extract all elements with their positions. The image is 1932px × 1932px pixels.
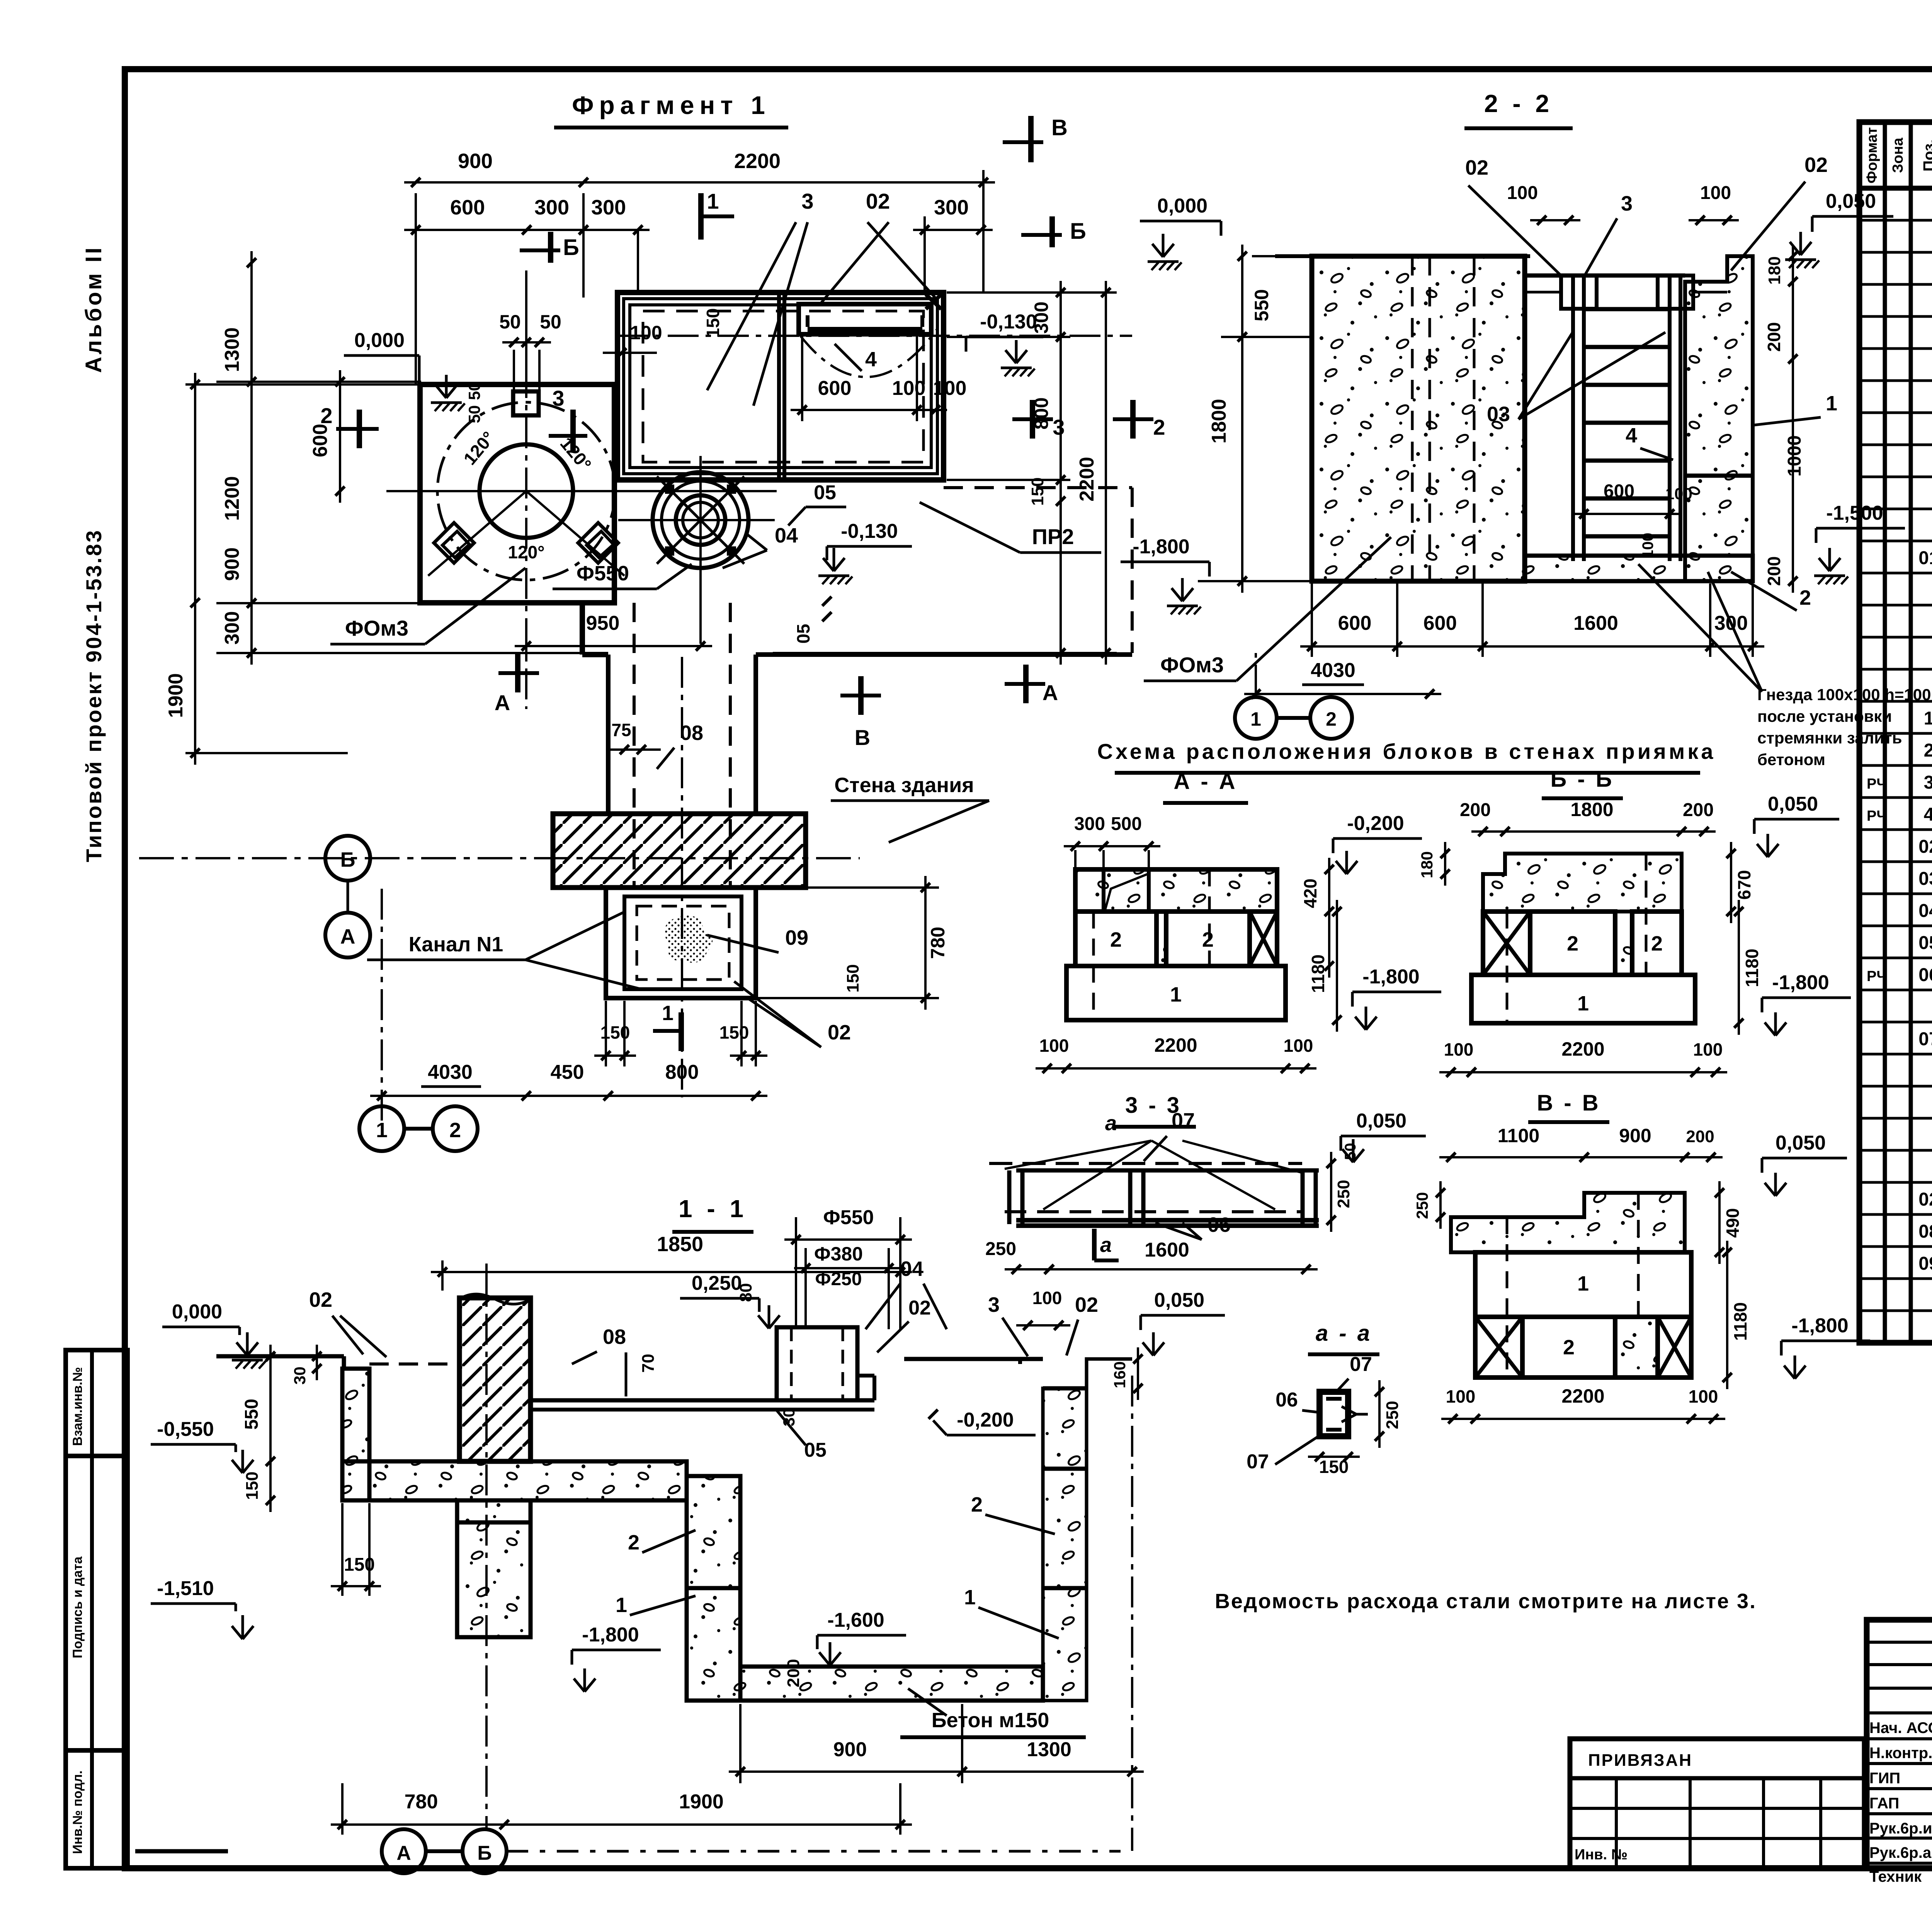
svg-text:ГИП: ГИП: [1869, 1770, 1900, 1787]
1-1: ground line left: [216, 1354, 344, 1359]
plan: bolt circle: [480, 444, 573, 538]
3-3: callout diagonals: [1043, 1141, 1151, 1209]
svg-text:2: 2: [320, 403, 332, 428]
svg-text:100: 100: [1665, 485, 1692, 503]
а-а: channel frame detail: [1320, 1392, 1348, 1436]
svg-text:50: 50: [465, 405, 483, 423]
svg-text:-1,510: -1,510: [157, 1577, 214, 1600]
svg-text:Инв. №: Инв. №: [1575, 1847, 1628, 1863]
svg-text:200: 200: [1686, 1127, 1714, 1146]
svg-text:Рук.6р.инж: Рук.6р.инж: [1869, 1820, 1932, 1837]
plan: pit divider: [777, 294, 781, 479]
svg-text:А - А: А - А: [1173, 769, 1237, 794]
plan: dimension chain 600/300/300: [404, 229, 650, 231]
svg-text:0,050: 0,050: [1768, 793, 1818, 815]
svg-text:30: 30: [291, 1367, 309, 1385]
plan: axis bubble А (left): [325, 913, 370, 957]
left small table ПРИВЯЗАН: [1570, 1739, 1864, 1868]
svg-text:05: 05: [814, 481, 836, 504]
svg-text:200: 200: [1764, 556, 1784, 586]
svg-text:ПРИВЯЗАН: ПРИВЯЗАН: [1588, 1751, 1692, 1770]
svg-text:Стена здания: Стена здания: [834, 774, 974, 797]
svg-text:3: 3: [1053, 415, 1065, 439]
svg-text:09: 09: [1918, 1253, 1932, 1274]
svg-text:2 - 2: 2 - 2: [1484, 90, 1553, 117]
svg-text:Б: Б: [477, 1842, 492, 1864]
svg-text:4: 4: [1924, 804, 1932, 825]
svg-text:-1,800: -1,800: [1772, 971, 1829, 994]
1-1: right wall: [1043, 1359, 1132, 1701]
svg-text:1600: 1600: [1573, 612, 1618, 634]
plan: cut marker В (bottom): [840, 694, 881, 697]
svg-text:600: 600: [450, 196, 485, 219]
svg-text:100: 100: [1032, 1288, 1062, 1308]
2-2: ladder anchors: [1561, 276, 1597, 309]
plan: pit corner weld mark: [926, 294, 941, 309]
plan: anchor bolt squares: [434, 523, 474, 563]
А-А: base block 1: [1066, 966, 1286, 1020]
svg-text:150: 150: [703, 308, 723, 338]
svg-text:Инв.№ подл.: Инв.№ подл.: [70, 1770, 85, 1854]
svg-text:А: А: [396, 1842, 411, 1864]
svg-text:06: 06: [1207, 1213, 1231, 1236]
svg-text:а: а: [1100, 1233, 1112, 1257]
2-2: big concrete block ФОм3: [1312, 256, 1525, 581]
svg-text:2: 2: [1651, 932, 1663, 955]
3-3: thin slab plate: [989, 1162, 1302, 1165]
plan: cut marker 2 (left): [336, 427, 379, 431]
svg-text:06: 06: [1918, 965, 1932, 985]
svg-text:2: 2: [449, 1119, 461, 1142]
svg-text:04: 04: [775, 524, 798, 547]
svg-text:50: 50: [499, 311, 521, 333]
2-2: bottom dims 600/600/1600/300: [1300, 645, 1764, 648]
svg-text:2200: 2200: [1076, 457, 1098, 502]
svg-text:Б: Б: [1070, 219, 1086, 244]
svg-text:0,050: 0,050: [1154, 1289, 1204, 1311]
svg-text:ФОм3: ФОм3: [345, 616, 408, 640]
svg-text:02: 02: [828, 1021, 851, 1044]
plan: pit horizontal axis: [617, 335, 1132, 337]
svg-text:1300: 1300: [221, 327, 243, 372]
svg-text:4: 4: [1626, 424, 1637, 447]
svg-text:1: 1: [616, 1594, 627, 1617]
svg-text:Рук.6р.арх: Рук.6р.арх: [1869, 1844, 1932, 1861]
svg-text:02: 02: [1465, 156, 1488, 179]
svg-text:3: 3: [552, 386, 564, 410]
plan: building wall (hatched): [553, 814, 806, 888]
svg-text:-1,600: -1,600: [827, 1609, 884, 1631]
svg-text:250: 250: [1413, 1192, 1431, 1219]
svg-text:В: В: [1051, 115, 1068, 140]
svg-text:1: 1: [1250, 708, 1261, 730]
svg-text:1900: 1900: [679, 1791, 724, 1813]
svg-text:бетоном: бетоном: [1757, 750, 1825, 769]
svg-text:ПР2: ПР2: [1032, 524, 1074, 549]
svg-text:150: 150: [1028, 477, 1047, 505]
svg-text:-1,500: -1,500: [1826, 502, 1883, 524]
svg-text:100: 100: [1639, 533, 1656, 559]
title block outer: [1867, 1620, 1932, 1868]
svg-text:А: А: [495, 690, 510, 715]
В-В: block 1: [1475, 1252, 1691, 1317]
svg-text:3: 3: [801, 189, 813, 213]
plan: right dimension chains: [1060, 281, 1062, 665]
svg-text:450: 450: [551, 1061, 584, 1083]
svg-text:-0,200: -0,200: [1347, 812, 1404, 835]
plan: panel swing arc: [801, 329, 937, 377]
svg-text:а - а: а - а: [1316, 1321, 1372, 1346]
svg-text:300: 300: [534, 196, 569, 219]
plan: bottom dimension 4030/450/800: [370, 1095, 767, 1097]
svg-text:600: 600: [309, 424, 332, 457]
plan: dims 600/100/100 in pit: [791, 409, 947, 411]
svg-text:670: 670: [1734, 870, 1754, 900]
svg-text:0,000: 0,000: [172, 1301, 222, 1323]
svg-text:Ф380: Ф380: [814, 1243, 863, 1265]
svg-text:Формат: Формат: [1864, 127, 1880, 184]
svg-text:Типовой проект 904-1-53.83: Типовой проект 904-1-53.83: [82, 529, 106, 862]
svg-text:Канал N1: Канал N1: [409, 933, 503, 956]
svg-text:03: 03: [1487, 403, 1510, 426]
svg-text:300: 300: [934, 196, 969, 219]
svg-text:1300: 1300: [1027, 1738, 1071, 1761]
svg-text:1100: 1100: [1498, 1125, 1539, 1146]
svg-text:Б: Б: [563, 235, 579, 260]
svg-text:Взам.инв.№: Взам.инв.№: [70, 1367, 85, 1446]
svg-text:РЧ: РЧ: [1867, 968, 1887, 985]
svg-text:900: 900: [221, 548, 243, 581]
svg-text:Б - Б: Б - Б: [1551, 767, 1614, 792]
svg-text:Б: Б: [340, 848, 355, 871]
svg-text:70: 70: [639, 1354, 658, 1373]
plan: cut marker 1 (bottom): [679, 1012, 684, 1051]
1-1: pit floor: [740, 1667, 1043, 1701]
В-В: stepped top slab: [1451, 1193, 1685, 1252]
plan: top dimension chain 900/2200: [404, 181, 995, 184]
svg-text:1800: 1800: [1570, 799, 1613, 820]
svg-text:05: 05: [793, 624, 813, 643]
plan: pit ПР2 outer walls: [617, 293, 944, 480]
svg-text:1900: 1900: [165, 673, 187, 718]
svg-text:2: 2: [1563, 1336, 1575, 1359]
svg-text:-0,130: -0,130: [841, 520, 898, 543]
svg-text:150: 150: [1319, 1457, 1349, 1477]
svg-text:1: 1: [1577, 1272, 1589, 1295]
svg-text:02: 02: [908, 1297, 931, 1319]
svg-text:2: 2: [1326, 708, 1337, 730]
svg-text:Н.контр.: Н.контр.: [1869, 1745, 1932, 1762]
1-1: center axis: [485, 1264, 488, 1828]
svg-text:1180: 1180: [1742, 949, 1762, 987]
svg-text:120°: 120°: [508, 542, 544, 562]
svg-text:1: 1: [376, 1119, 388, 1142]
plan: outline below square / channel: [420, 600, 582, 605]
svg-text:09: 09: [785, 926, 808, 949]
plan: channel pit below wall: [606, 888, 756, 998]
plan: marker В (top right): [1028, 116, 1034, 162]
svg-text:07: 07: [1247, 1451, 1269, 1473]
svg-text:780: 780: [405, 1791, 438, 1813]
2-2: floor strip: [1525, 556, 1753, 581]
svg-text:780: 780: [927, 927, 949, 959]
svg-text:160: 160: [1111, 1361, 1129, 1388]
plan: axis circle (dash-dot): [437, 402, 615, 580]
svg-text:Техник: Техник: [1869, 1868, 1922, 1885]
spec table grid: [1859, 122, 1932, 1343]
2-2: top surface lines: [1275, 254, 1312, 258]
svg-text:0,050: 0,050: [1776, 1132, 1826, 1154]
2-2: right wall blocks: [1685, 256, 1753, 581]
svg-text:1000: 1000: [1784, 435, 1805, 477]
svg-text:08: 08: [1918, 1221, 1932, 1242]
svg-text:600: 600: [1423, 612, 1457, 634]
svg-text:05: 05: [1918, 933, 1932, 953]
Б-Б: dims: [1471, 830, 1716, 833]
svg-text:3: 3: [988, 1293, 1000, 1316]
svg-text:550: 550: [1251, 289, 1272, 321]
plan: cut markers 1 / 3 / 02 (top): [698, 193, 704, 240]
svg-text:1: 1: [707, 189, 719, 213]
left margin stamp boxes: [66, 1350, 128, 1868]
svg-text:Схема расположения блоков в ст: Схема расположения блоков в стенах приям…: [1097, 739, 1716, 764]
1-1: bottom dims 780 / 1900: [331, 1823, 912, 1826]
svg-text:04: 04: [1918, 901, 1932, 921]
svg-text:2200: 2200: [1561, 1038, 1604, 1060]
svg-text:0,000: 0,000: [354, 329, 405, 352]
2-2: ladder СГ1: [1571, 276, 1575, 561]
svg-text:2: 2: [1202, 928, 1214, 951]
svg-text:100: 100: [892, 377, 926, 400]
svg-text:Ведомость расхода стали смо: Ведомость расхода стали смотрите на лист…: [1215, 1590, 1757, 1613]
svg-text:200: 200: [784, 1659, 803, 1687]
svg-text:после установки: после установки: [1757, 707, 1892, 725]
svg-text:3: 3: [1621, 192, 1633, 215]
А-А: top slab: [1075, 869, 1277, 912]
1-1: axis bubbles А Б: [382, 1829, 426, 1873]
svg-text:02: 02: [866, 189, 890, 213]
svg-text:200: 200: [1764, 322, 1784, 352]
svg-text:1: 1: [1826, 392, 1837, 415]
plan: foundation ФОм3 square outline: [420, 384, 614, 603]
svg-text:Ф550: Ф550: [577, 562, 629, 585]
svg-text:1200: 1200: [221, 476, 243, 521]
svg-text:4: 4: [865, 348, 877, 371]
svg-text:-1,800: -1,800: [582, 1624, 639, 1646]
svg-text:180: 180: [1765, 256, 1784, 284]
1-1: pit left wall: [687, 1476, 740, 1701]
svg-text:-0,550: -0,550: [157, 1418, 214, 1440]
svg-text:Бетон м150: Бетон м150: [932, 1709, 1049, 1732]
plan: left dimension chains: [250, 251, 253, 665]
svg-text:900: 900: [833, 1738, 867, 1761]
svg-text:Ф550: Ф550: [823, 1206, 874, 1229]
svg-text:Поз.: Поз.: [1920, 139, 1932, 172]
Б-Б: mid row: [1483, 912, 1530, 975]
svg-text:1: 1: [662, 1002, 673, 1025]
svg-text:1850: 1850: [657, 1233, 703, 1256]
svg-text:600: 600: [818, 377, 852, 400]
svg-text:100: 100: [630, 322, 662, 344]
svg-text:500: 500: [1111, 814, 1142, 834]
1-1: left wall: [342, 1369, 369, 1500]
svg-text:1: 1: [1170, 983, 1182, 1006]
svg-text:900: 900: [1619, 1125, 1651, 1146]
svg-text:3: 3: [1924, 772, 1932, 793]
svg-text:02: 02: [1918, 837, 1932, 857]
1-1: right top slab: [904, 1357, 1043, 1361]
svg-text:02: 02: [309, 1288, 332, 1311]
svg-text:1800: 1800: [1208, 399, 1230, 444]
plan: axis bubbles 1-2 (bottom): [359, 1106, 404, 1151]
svg-text:100: 100: [1700, 183, 1731, 203]
svg-text:08: 08: [603, 1325, 626, 1349]
svg-text:300: 300: [1074, 814, 1105, 834]
svg-text:А: А: [1043, 680, 1058, 705]
Б-Б: top slab: [1483, 854, 1682, 912]
1-1: central pier: [457, 1500, 531, 1637]
svg-text:50: 50: [1342, 1143, 1359, 1160]
svg-text:07: 07: [1350, 1353, 1372, 1376]
В-В: dims: [1439, 1156, 1723, 1158]
1-1: equipment pedestal: [777, 1327, 857, 1400]
svg-text:900: 900: [458, 150, 493, 173]
Б-Б: base 1: [1471, 975, 1695, 1023]
svg-text:550: 550: [241, 1399, 262, 1430]
svg-text:В - В: В - В: [1537, 1090, 1600, 1116]
svg-text:ГАП: ГАП: [1869, 1795, 1899, 1812]
svg-text:Ф250: Ф250: [815, 1269, 862, 1289]
svg-text:2200: 2200: [734, 150, 781, 173]
svg-text:100: 100: [1693, 1039, 1723, 1060]
svg-text:800: 800: [665, 1061, 699, 1083]
svg-text:2: 2: [628, 1531, 639, 1554]
svg-text:02: 02: [1075, 1293, 1098, 1316]
plan: axis bubble Б (left): [325, 836, 370, 881]
svg-text:80: 80: [736, 1283, 755, 1302]
svg-text:-1,800: -1,800: [1133, 536, 1189, 558]
plan: cut markers А: [498, 671, 539, 675]
svg-text:150: 150: [719, 1022, 749, 1043]
svg-text:2: 2: [1799, 586, 1811, 609]
svg-text:2200: 2200: [1154, 1034, 1197, 1056]
plan: marker Б (top): [548, 232, 553, 263]
svg-text:А: А: [340, 925, 355, 948]
svg-text:75: 75: [611, 720, 631, 740]
svg-text:-0,200: -0,200: [957, 1409, 1014, 1431]
svg-text:02: 02: [1918, 1189, 1932, 1210]
svg-text:02: 02: [1804, 153, 1828, 177]
svg-text:420: 420: [1300, 879, 1320, 908]
svg-text:0,050: 0,050: [1356, 1110, 1406, 1132]
svg-text:06: 06: [1276, 1389, 1298, 1411]
svg-text:1 - 1: 1 - 1: [679, 1195, 747, 1223]
svg-text:Нач. АСОЧ: Нач. АСОЧ: [1869, 1719, 1932, 1736]
svg-text:2: 2: [1567, 932, 1578, 955]
svg-text:100: 100: [1039, 1036, 1069, 1056]
1-1: floor slab to pedestal: [531, 1398, 874, 1403]
svg-text:-1,800: -1,800: [1362, 966, 1419, 988]
svg-text:100: 100: [1446, 1386, 1476, 1406]
svg-text:0,000: 0,000: [1157, 195, 1207, 217]
1-1: left dims: [269, 1345, 272, 1512]
svg-text:05: 05: [804, 1439, 827, 1461]
svg-text:100: 100: [1689, 1386, 1718, 1406]
svg-text:600: 600: [1604, 481, 1634, 502]
plan: steel panel ЩС1: [799, 304, 931, 334]
svg-text:0,050: 0,050: [1826, 190, 1876, 213]
svg-text:1: 1: [1577, 992, 1589, 1015]
1-1: foundation strip: [342, 1461, 687, 1500]
svg-text:Фрагмент 1: Фрагмент 1: [572, 91, 770, 119]
svg-text:03: 03: [1918, 869, 1932, 889]
svg-text:250: 250: [1383, 1401, 1402, 1429]
svg-text:50: 50: [540, 311, 561, 333]
plan: center lines: [386, 490, 777, 492]
В-В: bottom row: [1475, 1317, 1522, 1378]
svg-text:100: 100: [1284, 1036, 1313, 1056]
svg-text:4030: 4030: [428, 1061, 473, 1083]
svg-text:Альбом II: Альбом II: [81, 245, 106, 373]
svg-text:300: 300: [221, 611, 243, 645]
svg-text:а: а: [1105, 1112, 1117, 1135]
svg-text:100: 100: [1444, 1039, 1474, 1060]
svg-text:Зона: Зона: [1890, 138, 1906, 173]
plan: right pit dims: [924, 876, 927, 1010]
svg-text:-1,800: -1,800: [1791, 1315, 1848, 1337]
svg-text:стремянки залить: стремянки залить: [1757, 729, 1902, 747]
2-2: right dims: [1792, 245, 1794, 593]
svg-text:-0,130: -0,130: [980, 311, 1037, 333]
svg-text:1600: 1600: [1145, 1239, 1189, 1261]
svg-text:600: 600: [1338, 612, 1372, 634]
svg-text:Подпись и дата: Подпись и дата: [70, 1556, 85, 1658]
svg-text:250: 250: [985, 1239, 1016, 1259]
plan: top anchor niche: [513, 391, 539, 415]
svg-text:200: 200: [1683, 800, 1714, 820]
svg-text:2: 2: [1153, 415, 1165, 439]
А-А: mid row blocks: [1075, 912, 1156, 966]
svg-text:250: 250: [1334, 1180, 1353, 1208]
svg-text:4030: 4030: [1311, 659, 1355, 682]
svg-text:2200: 2200: [1561, 1385, 1604, 1407]
svg-text:01: 01: [1918, 548, 1932, 568]
svg-text:РЧ: РЧ: [1867, 776, 1887, 792]
svg-text:2: 2: [1924, 740, 1932, 761]
svg-text:950: 950: [586, 612, 620, 634]
svg-text:1: 1: [1924, 708, 1932, 729]
svg-text:2: 2: [1110, 928, 1122, 951]
svg-text:08: 08: [680, 721, 703, 745]
svg-text:1180: 1180: [1308, 954, 1328, 993]
1-1: hatched building wall: [459, 1298, 531, 1461]
svg-text:В: В: [855, 725, 870, 750]
plan: bolt group circle Ф550: [653, 472, 748, 568]
svg-text:1: 1: [964, 1586, 976, 1609]
svg-text:200: 200: [1460, 800, 1491, 820]
svg-text:2: 2: [971, 1493, 983, 1516]
svg-text:150: 150: [844, 964, 862, 992]
svg-text:300: 300: [591, 196, 626, 219]
svg-text:100: 100: [933, 377, 967, 400]
svg-text:490: 490: [1723, 1208, 1743, 1238]
plan: cut marker 2 / 3 (right): [1113, 417, 1153, 421]
svg-text:0,250: 0,250: [692, 1272, 742, 1294]
svg-text:07: 07: [1172, 1109, 1195, 1132]
svg-text:300: 300: [1031, 301, 1052, 333]
А-А: dims: [1064, 845, 1160, 847]
svg-text:1180: 1180: [1730, 1302, 1750, 1341]
